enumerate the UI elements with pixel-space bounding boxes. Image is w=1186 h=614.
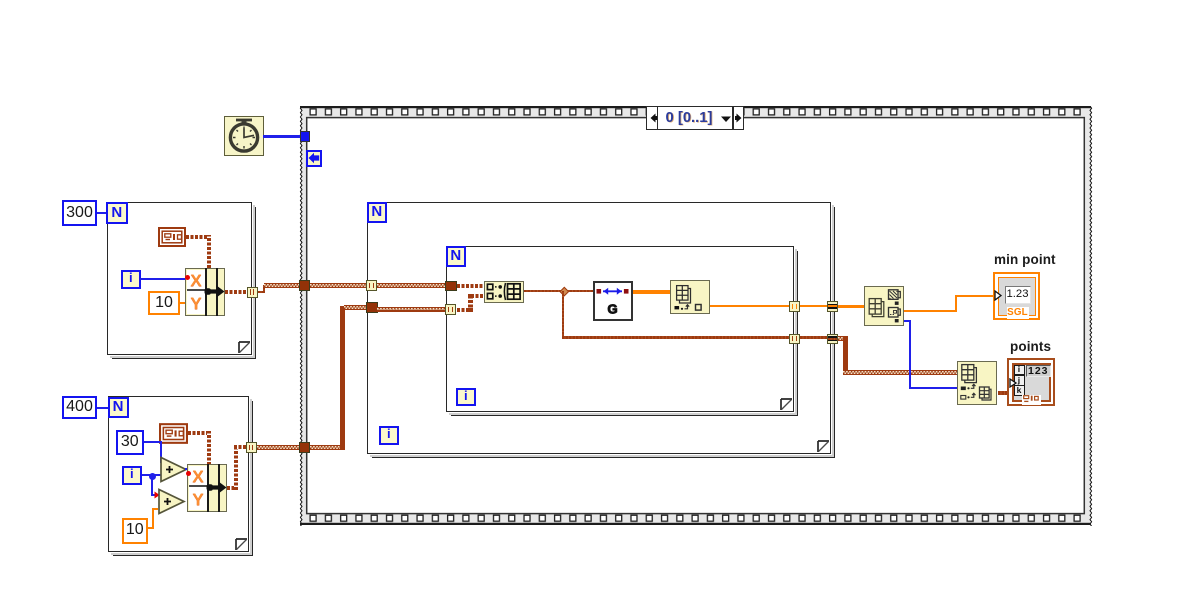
wire to max-min node (orange) [838, 305, 865, 308]
inner loop count terminal N [446, 246, 467, 267]
wire after outer tunnel brown [838, 336, 848, 341]
wire index-array to points [998, 391, 1009, 394]
tunnel loop B output [246, 442, 257, 453]
wire between tunnels brown [800, 336, 827, 339]
numeric constant 30 [116, 430, 144, 455]
bundle node (loop B) [187, 464, 227, 512]
selector divider right [732, 107, 734, 130]
wire 30 right [144, 441, 161, 443]
tunnel inner loop right orange [789, 301, 800, 312]
points cluster glyph tab [1022, 395, 1041, 405]
wire i down branch [151, 477, 153, 496]
wire stub loop A tunnel [258, 291, 265, 293]
wire i to add1 [155, 474, 162, 476]
selector frame text [659, 108, 719, 128]
wire i to add2 [151, 494, 155, 496]
wire bundle out (loop A) [225, 290, 247, 294]
point-distance subVI (G) [593, 281, 633, 321]
add function 1 (loop B) [159, 456, 188, 483]
coercion arrow add2 input [154, 491, 160, 499]
wire cluster const right (loop A) [186, 235, 209, 239]
index-array node [957, 361, 997, 405]
wire build-array to junction/G [524, 290, 594, 293]
wire bundle out (loop B) [227, 486, 238, 490]
numeric constant 10 (loop B) [122, 518, 148, 544]
selector left arrow [648, 111, 658, 125]
wire i to bundle X (loop A) [140, 278, 186, 280]
inner loop iteration terminal i [456, 388, 476, 407]
min point indicator terminal [993, 272, 1040, 320]
outer for-loop shadow gap [370, 205, 834, 457]
outer for-loop frame [367, 202, 831, 454]
wire to min-point (orange) [955, 295, 994, 297]
blue tunnel on sequence border [300, 131, 311, 142]
cluster constant (loop A) [158, 227, 186, 247]
add function 2 (loop B) [157, 488, 186, 515]
wire 300 to N [97, 212, 106, 214]
wire G to replace-node (orange) [633, 290, 671, 294]
wire junction diamond [559, 286, 568, 295]
min point label [994, 252, 1056, 267]
tunnel outer loop left top [366, 280, 377, 291]
loop A count terminal N [106, 202, 128, 224]
loop A iteration terminal i [121, 270, 141, 289]
tunnel outer loop left bottom (solid) [366, 302, 377, 313]
inner for-loop shadow gap [449, 249, 797, 415]
loop B iteration terminal i [122, 466, 142, 485]
wire replace-node to inner tunnel (orange) [710, 305, 791, 307]
wire 30 down [160, 441, 162, 463]
bundle node (loop A) [185, 268, 225, 316]
numeric constant 300 [62, 200, 97, 226]
selector divider left [657, 107, 659, 130]
for-loop A fold corner [238, 341, 251, 354]
wire i right (loop B) [142, 474, 152, 476]
wire 10 to add2 [152, 508, 159, 510]
min point input arrow [994, 290, 1002, 301]
wait-ms timer (clock) node [224, 116, 264, 156]
points input arrow [1009, 378, 1017, 388]
wire tunnel to build-array top [457, 284, 485, 288]
wire add1 to X [185, 468, 188, 470]
wire junction to inner tunnel (bottom) [562, 336, 791, 339]
numeric constant 400 [62, 396, 97, 419]
wire bundle top (loop B) [234, 445, 247, 449]
points indicator terminal [1007, 358, 1055, 406]
for-loop B shadow line [113, 401, 254, 557]
tunnel inner loop left bottom [445, 304, 456, 315]
for-loop A frame [107, 202, 252, 355]
wire 10 right (loop B) [148, 527, 154, 529]
wire outer to inner loop (top) [377, 283, 447, 288]
selector right arrow [734, 111, 744, 125]
tunnel inner loop left top (solid) [445, 281, 456, 292]
wire cluster const down (loop B) [207, 431, 211, 465]
wire tunnel right (bottom) [457, 308, 471, 312]
wire jog corner a [468, 294, 472, 298]
points label [1010, 339, 1051, 354]
inner for-loop fold corner [780, 398, 793, 411]
for-loop A shadow line [112, 207, 257, 360]
wire cluster const down (loop A) [207, 235, 211, 269]
for-loop B frame [108, 396, 249, 552]
wire between tunnels orange [800, 305, 827, 307]
outer for-loop shadow line [372, 207, 836, 459]
wire seq to corner (bottom) [310, 445, 342, 450]
sequence local (left arrow) [306, 150, 323, 167]
loop B count terminal N [108, 397, 129, 419]
outer loop iteration terminal i [379, 426, 399, 445]
wire outer to inner (bottom) [377, 307, 446, 312]
wire cluster const right (loop B) [188, 431, 210, 435]
inner for-loop frame [446, 246, 794, 412]
wire to build-array bottom [471, 294, 484, 298]
wire blue to index-array [909, 387, 957, 389]
inner for-loop shadow line [451, 251, 799, 417]
tunnel loop A output [247, 287, 258, 298]
wire clock to sequence tunnel [263, 135, 300, 138]
wire jog up (bottom) [468, 296, 472, 312]
stacked sequence structure frame [299, 106, 1093, 526]
wire jog up loop A [263, 285, 265, 293]
outer loop count terminal N [367, 202, 388, 223]
wire max-min blue right [904, 320, 911, 322]
coercion dot X (loop B) [186, 471, 191, 476]
wire 10 to bundle Y (loop A) [180, 302, 186, 304]
wire 400 to N [97, 407, 108, 409]
numeric constant 10 (loop A) [148, 291, 180, 315]
wire junction down [562, 291, 565, 338]
outer for-loop fold corner [817, 440, 830, 453]
wire 10 up (loop B) [152, 508, 154, 530]
wire brown to index-array [843, 370, 958, 375]
sequence tunnel (bottom array) [299, 442, 310, 453]
wire seq to outer loop (top) [310, 283, 368, 288]
wire bundle up (loop B) [234, 447, 238, 490]
for-loop B shadow gap [111, 399, 252, 555]
wire loop B to sequence [257, 445, 300, 450]
wire blue down [909, 320, 911, 389]
sequence tunnel (top array) [299, 280, 310, 291]
for-loop A shadow gap [110, 205, 255, 358]
svg-text:G: G [607, 302, 617, 317]
cluster constant (loop B) [159, 423, 188, 444]
sequence selector "0 [0..1]" [646, 106, 744, 130]
insert-into-array node [670, 280, 710, 314]
tunnel outer loop right orange [827, 301, 838, 312]
wire loop A to sequence [264, 283, 300, 288]
coercion dot X (loop A) [185, 275, 190, 280]
tunnel outer loop right brown [827, 334, 838, 345]
for-loop B fold corner [235, 538, 248, 551]
build-array node (inner loop) [484, 281, 524, 303]
array max-min node [864, 286, 904, 326]
wire max-min to right (orange) [904, 310, 957, 312]
wire jog corner b [468, 308, 472, 312]
selector dropdown arrow [720, 115, 732, 123]
wire corner vertical [340, 306, 345, 450]
wire min up (orange) [955, 295, 957, 312]
tunnel inner loop right brown [789, 334, 800, 345]
wire brown down [843, 336, 848, 375]
wire corner to outer loop [344, 305, 367, 310]
junction dot i (loop B) [149, 473, 156, 480]
